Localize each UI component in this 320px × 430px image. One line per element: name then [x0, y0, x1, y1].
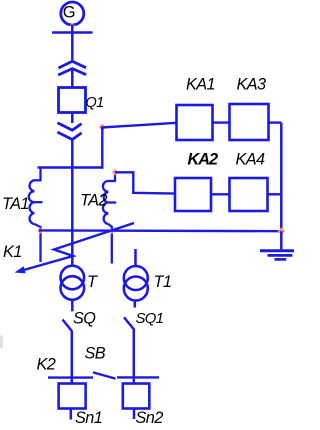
node TA2 top (red) [112, 169, 118, 176]
svg-text:K1: K1 [3, 243, 22, 261]
wire SQ1 to Sn2 [133, 329, 136, 385]
ground junction node (red diamond) [278, 227, 286, 235]
svg-text:Sn2: Sn2 [136, 409, 164, 427]
svg-text:T1: T1 [154, 273, 172, 291]
relay KA4 box [230, 178, 268, 211]
arrowhead K1 [15, 266, 26, 273]
svg-text:TA1: TA1 [2, 195, 29, 213]
contact bar right [117, 376, 159, 378]
svg-text:G: G [63, 3, 76, 21]
transformer T (two circles) [61, 266, 85, 290]
busbar horizontal [52, 31, 93, 34]
button SB blade [93, 372, 116, 378]
wire main vertical from G to upper chevrons [71, 25, 74, 62]
node at generator bottom (red mark) [70, 23, 75, 29]
generator G1 circle [61, 2, 84, 25]
wire T1 branch stub [134, 249, 137, 267]
svg-text:SB: SB [85, 345, 106, 363]
long horizontal wire to ground rail [39, 229, 281, 232]
wire KA4 to right rail [268, 193, 282, 195]
svg-text:TA2: TA2 [80, 192, 107, 210]
wire TA2 top to KA2 row [115, 172, 176, 193]
svg-text:K2: K2 [37, 356, 56, 374]
svg-text:Q1: Q1 [86, 95, 104, 111]
ground symbol [260, 251, 294, 260]
wire T1 to SQ1 [134, 300, 137, 308]
disconnector SQ1 blade [124, 317, 134, 329]
transformer T1 (two circles) [124, 266, 148, 290]
disconnector SQ blade [63, 320, 72, 332]
withdrawable contact chevrons (down) [57, 123, 81, 130]
scan artifact left edge [0, 336, 3, 349]
junction node below Q1 (red diamond) [99, 124, 106, 131]
load Sn2 box [123, 384, 150, 409]
withdrawable contact chevrons (up) [59, 61, 87, 68]
relay KA2 box [175, 178, 211, 211]
wire Sn2 stub [133, 409, 136, 420]
wire Sn1 stub [70, 409, 73, 420]
relay KA1 box [177, 105, 213, 140]
svg-text:SQ: SQ [73, 310, 96, 328]
wire KA3 to right rail [269, 121, 282, 123]
wire chevrons to Q1 [71, 70, 74, 89]
relay action line K1 with arrow [22, 223, 134, 271]
svg-text:KA4: KA4 [236, 151, 266, 169]
wire T to SQ [71, 300, 74, 312]
wire main vertical to transformer T [71, 140, 74, 267]
svg-text:Sn1: Sn1 [75, 409, 102, 427]
wire SQ to Sn1 [71, 331, 74, 385]
svg-text:KA1: KA1 [186, 75, 215, 93]
relay KA3 box [230, 104, 269, 140]
wire KA2 to KA4 [211, 193, 230, 195]
node TA2 bottom (red) [109, 229, 115, 235]
wire junction to KA1 [102, 123, 177, 128]
wire horizontal tap [38, 166, 103, 168]
svg-text:KA2: KA2 [188, 151, 219, 169]
svg-text:T: T [87, 273, 98, 291]
wire junction to ground [280, 231, 283, 250]
right rail vertical [280, 123, 283, 232]
current transformer TA1 [29, 168, 43, 263]
wire KA1 to KA3 [213, 121, 231, 123]
node TA1 bottom (red) [37, 228, 43, 234]
circuit breaker Q1 box [59, 88, 86, 113]
svg-text:SQ1: SQ1 [136, 310, 164, 327]
wire junction down [101, 127, 103, 169]
load Sn1 box [59, 384, 86, 409]
svg-text:KA3: KA3 [237, 75, 267, 93]
contact K2 bar [48, 376, 93, 378]
wire Q1 to lower chevrons [71, 113, 74, 124]
current transformer TA2 [103, 173, 116, 264]
